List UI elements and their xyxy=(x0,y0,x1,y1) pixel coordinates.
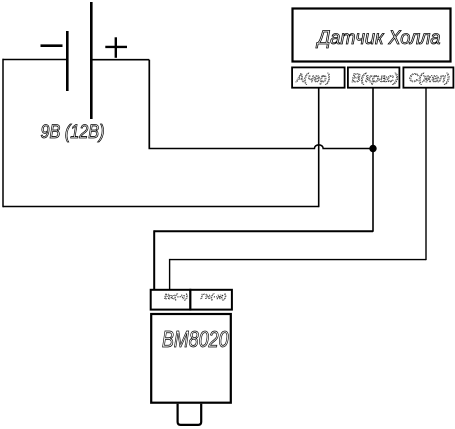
hall sensor terminal box B (red wire) xyxy=(348,67,400,87)
junction dot at positive wire and pin B wire xyxy=(369,145,376,152)
minus polarity symbol xyxy=(41,44,63,47)
battery GB1 long positive plate xyxy=(90,2,93,119)
wire: pin B vertical down through junction xyxy=(372,89,374,232)
hall sensor main box xyxy=(293,9,451,62)
wire: left vertical down xyxy=(2,59,4,207)
wire: vertical down from positive wire xyxy=(148,60,150,149)
BM8020 counter main box xyxy=(151,314,231,403)
hall sensor terminal box A (black wire) xyxy=(292,67,345,87)
wire: pin C net vertical down to BM8020 xyxy=(169,259,171,290)
svg-text:9В (12В): 9В (12В) xyxy=(41,122,105,143)
wire: pin C vertical down xyxy=(425,89,427,261)
BM8020 terminal box right xyxy=(190,290,232,310)
wire: pin B net horizontal to left xyxy=(154,230,373,232)
svg-text:С(жел): С(жел) xyxy=(409,71,450,85)
wire: negative plate to left edge xyxy=(3,59,68,61)
svg-text:Вх(-ч): Вх(-ч) xyxy=(164,292,189,301)
svg-text:Гн(-ж): Гн(-ж) xyxy=(201,292,228,301)
BM8020 terminal box left xyxy=(151,290,191,310)
BM8020 bottom stub connector xyxy=(178,404,202,425)
wire: pin B net vertical down to BM8020 xyxy=(153,230,155,289)
wire: bottom horizontal of negative net to pin A xyxy=(3,206,319,208)
battery GB1 short negative plate xyxy=(66,31,69,91)
wire: positive plate to the right xyxy=(91,59,149,61)
svg-text:BM8020: BM8020 xyxy=(162,326,229,352)
wire: pin C net horizontal to left xyxy=(170,259,426,261)
svg-text:Датчик Холла: Датчик Холла xyxy=(316,28,441,49)
svg-text:А(чер): А(чер) xyxy=(295,71,330,85)
wire: pin A vertical down to negative net xyxy=(318,89,320,208)
wire: positive horizontal run with hop over pin A wire xyxy=(149,145,374,149)
plus polarity symbol xyxy=(105,37,127,58)
hall sensor terminal box C (yellow wire) xyxy=(403,67,453,87)
svg-text:В(крас): В(крас) xyxy=(352,71,399,85)
